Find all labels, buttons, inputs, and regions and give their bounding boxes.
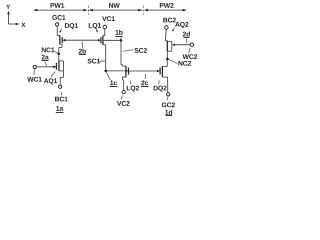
contact VC1 <box>102 16 115 28</box>
label 2d <box>183 31 190 43</box>
contact WC2 <box>183 43 198 59</box>
dimension line NW <box>89 3 143 11</box>
wire word line 2 to AQ2 gate <box>175 44 191 46</box>
wire GC1 to DQ1 <box>56 26 58 35</box>
wire word line to AQ1 gate <box>36 66 53 68</box>
wire node A to inverter2 gates <box>106 70 126 72</box>
label 2a <box>42 55 49 66</box>
contact VC2 <box>117 91 130 106</box>
label SC2 <box>123 48 147 53</box>
contact GC2 <box>162 93 175 108</box>
leader LQ1 <box>96 28 97 31</box>
label AQ1 <box>44 78 57 84</box>
transistor LQ1 <box>98 29 121 45</box>
dimension line PW1 <box>33 3 88 11</box>
contact WC1 <box>27 66 42 82</box>
transistor DQ2 <box>157 66 168 92</box>
node NC1 <box>42 47 60 61</box>
axis Y arrow <box>8 13 10 24</box>
label LQ1 <box>89 23 101 29</box>
transistor LQ2 <box>122 66 128 90</box>
wire 2b gate of inverter1 <box>65 39 98 41</box>
label 1d <box>165 110 172 116</box>
leader AQ2 <box>173 28 175 31</box>
leader AQ1 <box>51 72 55 77</box>
label AQ2 <box>175 22 188 28</box>
label 1a <box>56 106 64 112</box>
wire 2c inverter2 gate <box>129 70 158 72</box>
contact BC1 <box>55 85 68 101</box>
label 2c <box>141 74 149 87</box>
wire SC2 vertical <box>121 40 122 66</box>
wire LQ1 drain down <box>105 45 107 71</box>
node A junction <box>105 70 108 73</box>
well boundary dash 1 <box>87 6 89 15</box>
leader DQ2 <box>158 80 161 84</box>
leader DQ1 <box>60 29 62 32</box>
label DQ1 <box>65 23 78 29</box>
transistor AQ1 <box>56 61 63 78</box>
contact GC1 <box>52 15 65 26</box>
leader LQ2 <box>129 80 132 84</box>
label 1b <box>115 30 122 40</box>
label SC1 <box>87 59 105 64</box>
transistor AQ2 <box>165 41 175 67</box>
transistor DQ1 <box>57 35 65 47</box>
label LQ2 <box>127 86 139 92</box>
dimension line PW2 <box>144 3 187 11</box>
axis X arrow <box>9 23 17 25</box>
well boundary dash 2 <box>142 6 144 15</box>
contact BC2 <box>163 18 176 30</box>
node NC2 <box>166 58 191 66</box>
label 2b <box>79 41 86 54</box>
coordinate axes <box>6 5 25 27</box>
label 1c <box>106 72 117 86</box>
wire BC2 to AQ2 <box>164 29 167 40</box>
label DQ2 <box>154 86 167 92</box>
wire AQ1 to BC1 <box>60 77 63 85</box>
node junction 1b corner <box>120 39 123 42</box>
